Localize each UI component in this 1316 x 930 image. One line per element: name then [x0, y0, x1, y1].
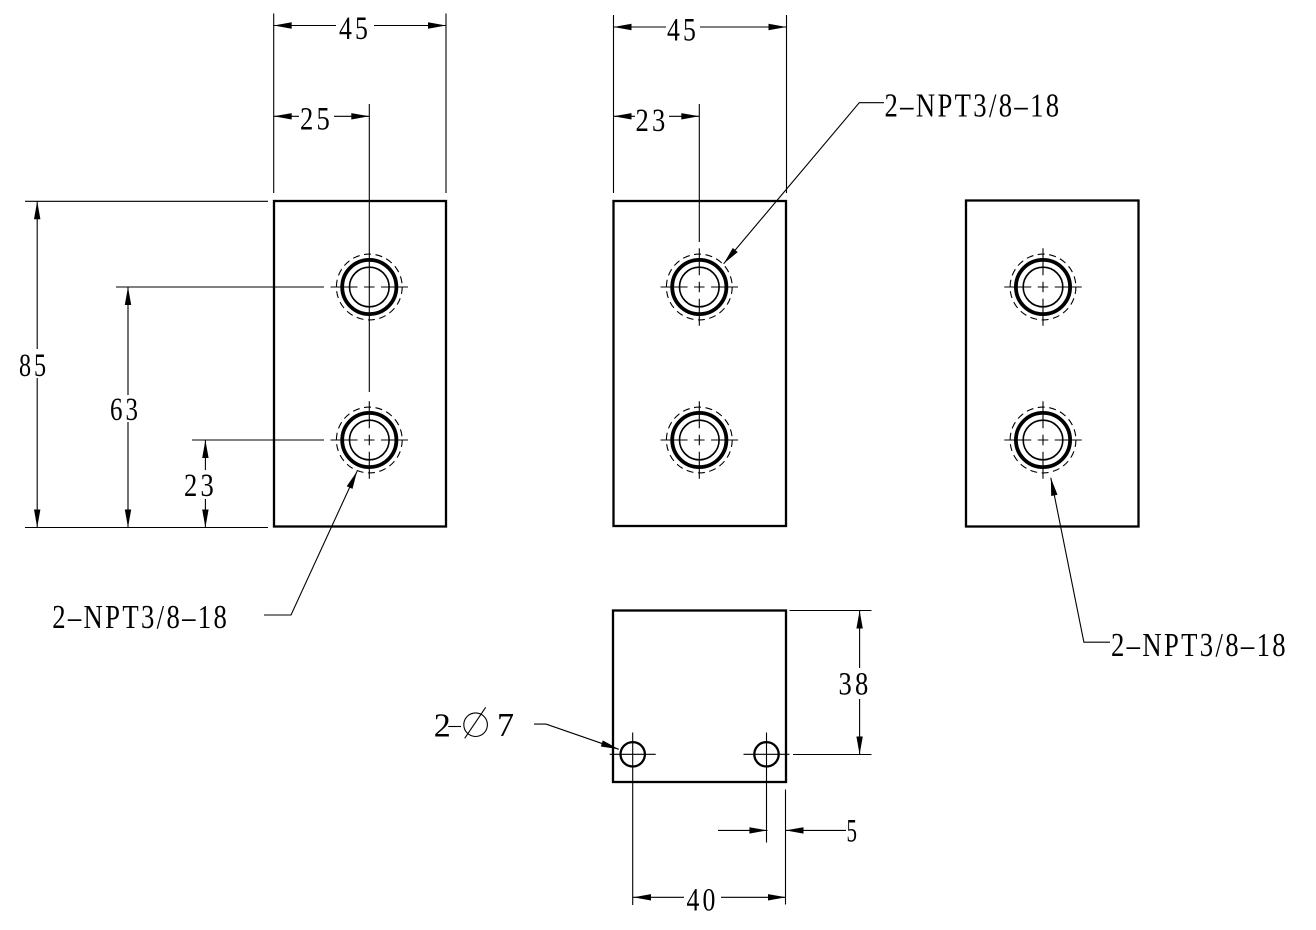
- svg-text:2–NPT3/8–18: 2–NPT3/8–18: [1111, 627, 1288, 664]
- front view outline: [274, 201, 446, 527]
- dimension 25 front: [274, 102, 370, 138]
- port hole C2 back lower: [1004, 401, 1082, 479]
- extension line 23 lower hole: [192, 439, 324, 441]
- port hole B1 middle upper: [661, 248, 739, 326]
- svg-text:5: 5: [847, 814, 860, 850]
- svg-text:40: 40: [687, 883, 719, 919]
- back view outline: [966, 201, 1139, 527]
- svg-text:7: 7: [497, 707, 517, 744]
- extension line 45 front right: [445, 14, 447, 194]
- leader 2-NPT3/8-18 bottom-right: [1051, 478, 1288, 664]
- extension line 63 upper hole: [116, 286, 324, 288]
- dimension 85: [19, 201, 49, 527]
- extension line 38 hole level: [793, 754, 872, 756]
- bottom view outline: [613, 611, 786, 783]
- extension line 40/5 right edge: [785, 790, 787, 905]
- svg-text:2–NPT3/8–18: 2–NPT3/8–18: [52, 599, 229, 636]
- leader 2-NPT3/8-18 top: [724, 87, 1062, 263]
- svg-text:85: 85: [19, 348, 49, 384]
- dimension 45 middle: [614, 13, 787, 49]
- centerline middle view vertical upper: [698, 104, 700, 242]
- dimension 23 left: [184, 440, 217, 528]
- svg-text:23: 23: [184, 468, 217, 504]
- side view outline: [614, 201, 787, 526]
- svg-text:45: 45: [339, 11, 371, 47]
- svg-text:63: 63: [110, 392, 141, 428]
- svg-text:38: 38: [839, 667, 872, 703]
- extension line 85/63/23 bottom: [25, 527, 268, 529]
- extension line 38 top: [790, 610, 872, 612]
- mounting hole D2 bottom-right: [744, 742, 790, 766]
- svg-text:25: 25: [300, 102, 333, 138]
- extension line 45 middle right: [786, 15, 788, 193]
- extension line 85 top: [25, 200, 268, 202]
- dimension 23 middle: [614, 103, 700, 139]
- port hole A1 front upper: [331, 254, 409, 320]
- dimension 45 front: [274, 11, 446, 47]
- centerline mounting hole D2 vertical: [766, 733, 768, 843]
- dimension 5: [718, 814, 860, 850]
- svg-text:45: 45: [667, 13, 699, 49]
- svg-text:2–NPT3/8–18: 2–NPT3/8–18: [885, 87, 1062, 124]
- mounting hole D1 bottom-left: [610, 733, 656, 906]
- dimension 40: [633, 883, 786, 919]
- centerline front view vertical: [368, 104, 370, 392]
- dimension 63: [110, 287, 141, 528]
- dimension 38: [839, 611, 872, 755]
- svg-text:23: 23: [636, 103, 669, 139]
- leader 2-NPT3/8-18 bottom-left: [52, 471, 357, 636]
- extension line 45 middle left: [613, 15, 615, 193]
- leader 2-dia7 label: [434, 707, 619, 749]
- port hole A2 front lower: [331, 401, 409, 479]
- extension line 45 front left: [273, 14, 275, 194]
- port hole C1 back upper: [1004, 248, 1082, 326]
- port hole B2 middle lower: [661, 401, 739, 479]
